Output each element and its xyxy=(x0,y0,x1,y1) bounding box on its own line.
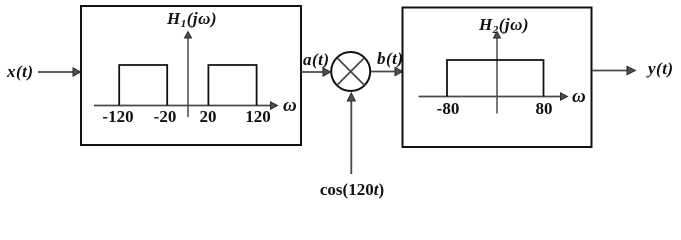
svg-text:-120: -120 xyxy=(102,107,133,126)
svg-text:b(t): b(t) xyxy=(377,49,404,68)
svg-text:cos(120t): cos(120t) xyxy=(320,180,384,199)
H1 tick label -120 xyxy=(102,107,133,126)
H2 vertical axis xyxy=(494,32,501,114)
svg-text:-80: -80 xyxy=(437,99,460,118)
output signal label y(t) xyxy=(646,59,674,78)
H2 omega axis label xyxy=(572,86,586,107)
svg-text:H1(jω): H1(jω) xyxy=(166,9,217,30)
input signal label x(t) xyxy=(6,62,34,81)
H2 horizontal axis xyxy=(419,93,568,100)
svg-text:a(t): a(t) xyxy=(303,50,330,69)
H1 horizontal axis xyxy=(94,102,278,109)
node b(t) label xyxy=(377,49,404,68)
svg-text:20: 20 xyxy=(200,107,217,126)
wire cos(120t) to multiplier xyxy=(347,93,355,174)
svg-text:H2(jω): H2(jω) xyxy=(478,15,529,36)
wire multiplier to H2 xyxy=(371,67,403,75)
svg-text:120: 120 xyxy=(245,107,271,126)
H1 passband rect 20..120 xyxy=(208,65,256,106)
H1 tick label 120 xyxy=(245,107,271,126)
H1 tick label 20 xyxy=(200,107,217,126)
H1 vertical axis xyxy=(185,32,192,118)
node a(t) label xyxy=(303,50,330,69)
svg-text:80: 80 xyxy=(536,99,553,118)
wire H2 to y(t) xyxy=(592,66,636,74)
H2 plot title H2(jω) xyxy=(478,15,529,36)
svg-text:-20: -20 xyxy=(154,107,177,126)
H2 tick label 80 xyxy=(536,99,553,118)
H1 omega axis label xyxy=(283,95,297,116)
oscillator label cos(120t) xyxy=(320,180,384,199)
filter block H2 xyxy=(403,8,592,148)
svg-text:ω: ω xyxy=(572,86,586,107)
svg-text:ω: ω xyxy=(283,95,297,116)
H1 plot title H1(jω) xyxy=(166,9,217,30)
svg-text:y(t): y(t) xyxy=(646,59,674,78)
H2 tick label -80 xyxy=(437,99,460,118)
wire H1 to multiplier xyxy=(301,68,331,76)
svg-text:x(t): x(t) xyxy=(6,62,34,81)
filter block H1 xyxy=(81,6,301,145)
H1 tick label -20 xyxy=(154,107,177,126)
multiplier M1 xyxy=(331,52,370,91)
H2 passband rect -80..80 xyxy=(447,60,544,97)
H1 passband rect -120..-20 xyxy=(119,65,167,106)
wire x(t) to filter H1 xyxy=(38,68,81,76)
